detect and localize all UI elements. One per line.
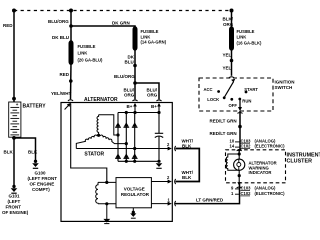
svg-text:G100: G100: [35, 171, 47, 176]
wire LT GRN/RED cluster to alternator I: [175, 184, 240, 204]
svg-text:BLU/ORG: BLU/ORG: [114, 74, 135, 79]
node: battery bottom junction: [12, 136, 16, 140]
alternator box: [61, 103, 172, 222]
svg-text:(14 GA-GRN): (14 GA-GRN): [141, 40, 167, 45]
svg-text:LINK: LINK: [237, 35, 247, 40]
node: splice S4: [238, 125, 242, 129]
stator coil 1: [97, 115, 99, 136]
rectifier top bus: [118, 112, 159, 114]
connector row C103 pin 10: [235, 141, 240, 143]
connector: regulator pin 2 exit: [168, 180, 172, 184]
svg-text:FUSIBLE: FUSIBLE: [237, 29, 255, 34]
wire branch to B+ right: [135, 83, 159, 99]
node: DK GRN branch junction: [69, 24, 73, 28]
svg-text:VOLTAGE: VOLTAGE: [124, 186, 145, 191]
wire DK BLU / BLU-ORG to alternator B+: [134, 48, 136, 99]
svg-text:(LEFT: (LEFT: [8, 199, 21, 204]
connector: alternator B+ right entry: [156, 100, 161, 101]
svg-text:FRONT: FRONT: [6, 204, 22, 209]
fusible link F1 (20 GA-BLU): [69, 44, 74, 62]
node: splice S1: [69, 79, 73, 83]
svg-text:COMPT): COMPT): [32, 187, 50, 192]
battery B1: [9, 102, 21, 137]
node: indicator top junction: [238, 152, 240, 159]
node: stator center: [97, 134, 100, 137]
svg-text:(16 GA-BLK): (16 GA-BLK): [237, 41, 262, 46]
indicator lamp L1: [234, 159, 245, 170]
stator coil 2 (left leg): [76, 135, 97, 148]
connector: S terminal exit: [168, 147, 172, 151]
connector: alternator pin A entry: [68, 100, 73, 101]
wire regulator terminal 2: [151, 181, 169, 183]
wire YEL to ignition switch: [231, 48, 233, 75]
svg-text:B+: B+: [127, 104, 133, 109]
svg-text:SWITCH: SWITCH: [275, 85, 293, 90]
connector row C103 pin 9: [235, 188, 240, 190]
contact LOCK: [223, 96, 226, 99]
svg-text:C102: C102: [241, 144, 252, 149]
fusible link F2 (14 GA-GRN): [133, 30, 138, 48]
node: bus-right junction: [230, 9, 234, 13]
wire internal: A feed to regulator: [71, 104, 107, 183]
svg-text:CLUSTER: CLUSTER: [287, 158, 313, 164]
svg-text:OF ENGINE: OF ENGINE: [30, 182, 55, 187]
cluster entry arrow: [237, 149, 241, 153]
wire RED to battery: [13, 11, 15, 103]
contact ACC: [217, 90, 220, 93]
wire field top: [98, 181, 116, 183]
resistor (parallel with indicator lamp): [226, 154, 239, 170]
wire regulator to ground: [132, 208, 134, 212]
svg-text:YEL: YEL: [223, 66, 232, 71]
svg-text:RED: RED: [3, 23, 13, 28]
svg-text:BLU: BLU: [125, 60, 134, 65]
wire regulator terminal I: [151, 203, 169, 205]
svg-text:C103: C103: [241, 186, 252, 191]
wire BLK battery to G101: [13, 138, 15, 186]
wire RUN output: [239, 99, 241, 108]
diode D1: [115, 122, 120, 127]
connector: switch feed entry: [229, 77, 234, 78]
diode column 2: [125, 113, 127, 162]
ground: regulator: [132, 211, 135, 214]
svg-text:LOCK: LOCK: [207, 97, 219, 102]
svg-text:STATOR: STATOR: [84, 151, 104, 157]
svg-text:(ELECTRONIC): (ELECTRONIC): [255, 191, 286, 196]
contact START: [245, 91, 248, 94]
ground: field coil: [103, 219, 110, 223]
svg-text:ORG: ORG: [124, 93, 135, 98]
node: battery top junction: [12, 97, 16, 101]
wire BLK/ORG bus to fusible link F3: [231, 11, 233, 30]
svg-text:(20 GA-BLU): (20 GA-BLU): [78, 58, 103, 63]
svg-text:FUSIBLE: FUSIBLE: [141, 29, 159, 34]
svg-text:B+: B+: [151, 104, 157, 109]
svg-text:BLU/ORG: BLU/ORG: [48, 19, 69, 24]
svg-text:REGULATOR: REGULATOR: [121, 192, 150, 197]
svg-text:ACC: ACC: [204, 87, 213, 92]
diode D3: [132, 122, 137, 127]
contact OFF: [230, 98, 233, 101]
node: phase B junction: [125, 142, 128, 145]
field coil (rotor): [96, 182, 98, 203]
capacitor C1: [158, 113, 160, 134]
node: indicator bottom junction: [238, 170, 240, 183]
connector: alternator B+ left entry: [132, 100, 137, 101]
ignition switch SW1: [199, 78, 273, 111]
diode D2: [124, 122, 129, 127]
wire RED / YEL-WHT to alternator: [70, 63, 73, 100]
diode D6: [132, 153, 137, 158]
diode column 3: [134, 113, 136, 162]
connector row C102 pin 14: [235, 146, 240, 148]
instrument cluster box: [226, 150, 286, 183]
svg-text:RED: RED: [60, 72, 70, 77]
power bus dashed wire: [14, 10, 232, 12]
svg-text:RED/LT GRN: RED/LT GRN: [210, 131, 237, 136]
svg-text:ORG: ORG: [223, 22, 234, 27]
stator coil 3 (right leg): [100, 135, 126, 144]
svg-text:BLK: BLK: [182, 144, 192, 149]
svg-text:INDICATOR: INDICATOR: [249, 170, 272, 175]
fusible link F3 (16 GA-BLK): [229, 30, 234, 48]
ground: rectifier: [156, 163, 163, 167]
svg-text:ORG: ORG: [147, 93, 158, 98]
svg-text:RUN: RUN: [242, 98, 251, 103]
svg-text:C102: C102: [241, 191, 252, 196]
svg-text:+: +: [16, 102, 19, 107]
switch arm: [224, 82, 233, 98]
ground G101: [2, 185, 29, 215]
svg-text:(ELECTRONIC): (ELECTRONIC): [255, 144, 286, 149]
rectifier bottom bus: [118, 160, 159, 162]
connector row C102 pin 1: [235, 193, 240, 195]
node: splice S3: [230, 59, 234, 63]
svg-text:14: 14: [230, 144, 235, 149]
svg-text:OFF: OFF: [229, 103, 238, 108]
cluster exit arrow: [237, 182, 241, 186]
svg-text:DK GRN: DK GRN: [112, 21, 130, 26]
wire phase C to S terminal: [76, 148, 169, 150]
node: phase A junction: [116, 133, 119, 136]
svg-text:DK BLU: DK BLU: [52, 35, 69, 40]
wire BLU/ORG bus to fusible link F1: [70, 11, 72, 43]
wire field bottom: [98, 203, 116, 205]
svg-text:FUSIBLE: FUSIBLE: [78, 44, 96, 49]
wire RED/LT GRN to cluster: [239, 111, 241, 150]
svg-text:(LEFT FRONT: (LEFT FRONT: [28, 176, 58, 181]
svg-text:BLK/: BLK/: [223, 17, 234, 22]
wire DK GRN to fusible link F2: [71, 26, 135, 28]
svg-text:IGNITION: IGNITION: [275, 80, 295, 85]
svg-text:START: START: [244, 87, 258, 92]
diode column 1: [117, 113, 119, 162]
voltage regulator box: [116, 178, 151, 208]
svg-text:OF ENGINE): OF ENGINE): [2, 210, 29, 215]
svg-text:BATTERY: BATTERY: [23, 104, 47, 110]
node: splice S2: [133, 64, 137, 68]
svg-text:G101: G101: [9, 194, 21, 199]
svg-text:BLK: BLK: [4, 150, 14, 155]
svg-text:ALTERNATOR: ALTERNATOR: [84, 97, 118, 103]
svg-text:BLK: BLK: [28, 150, 38, 155]
node: bus-left junction: [12, 9, 16, 13]
svg-text:LT GRN/RED: LT GRN/RED: [196, 198, 224, 203]
ground G100: [28, 160, 58, 192]
svg-text:LINK: LINK: [78, 51, 88, 56]
diode D5: [124, 153, 129, 158]
svg-text:YEL: YEL: [223, 53, 232, 58]
node: phase C junction: [133, 147, 136, 150]
wire phase A: [99, 115, 118, 135]
wire WHT/BLK loop S to regulator A: [176, 149, 200, 182]
svg-text:BLK: BLK: [182, 175, 192, 180]
node: bus-mid junction: [69, 9, 73, 13]
wire BLK battery to G100: [14, 138, 36, 160]
wire field to ground: [106, 204, 108, 219]
connector: regulator pin 1 exit: [168, 202, 172, 206]
svg-text:(ANALOG): (ANALOG): [255, 186, 277, 191]
node: B+ branch junction: [133, 81, 137, 85]
contact RUN: [238, 98, 241, 101]
svg-text:YEL/WHT: YEL/WHT: [51, 91, 71, 96]
svg-text:RED/LT GRN: RED/LT GRN: [210, 119, 237, 124]
diode D4: [115, 153, 120, 158]
